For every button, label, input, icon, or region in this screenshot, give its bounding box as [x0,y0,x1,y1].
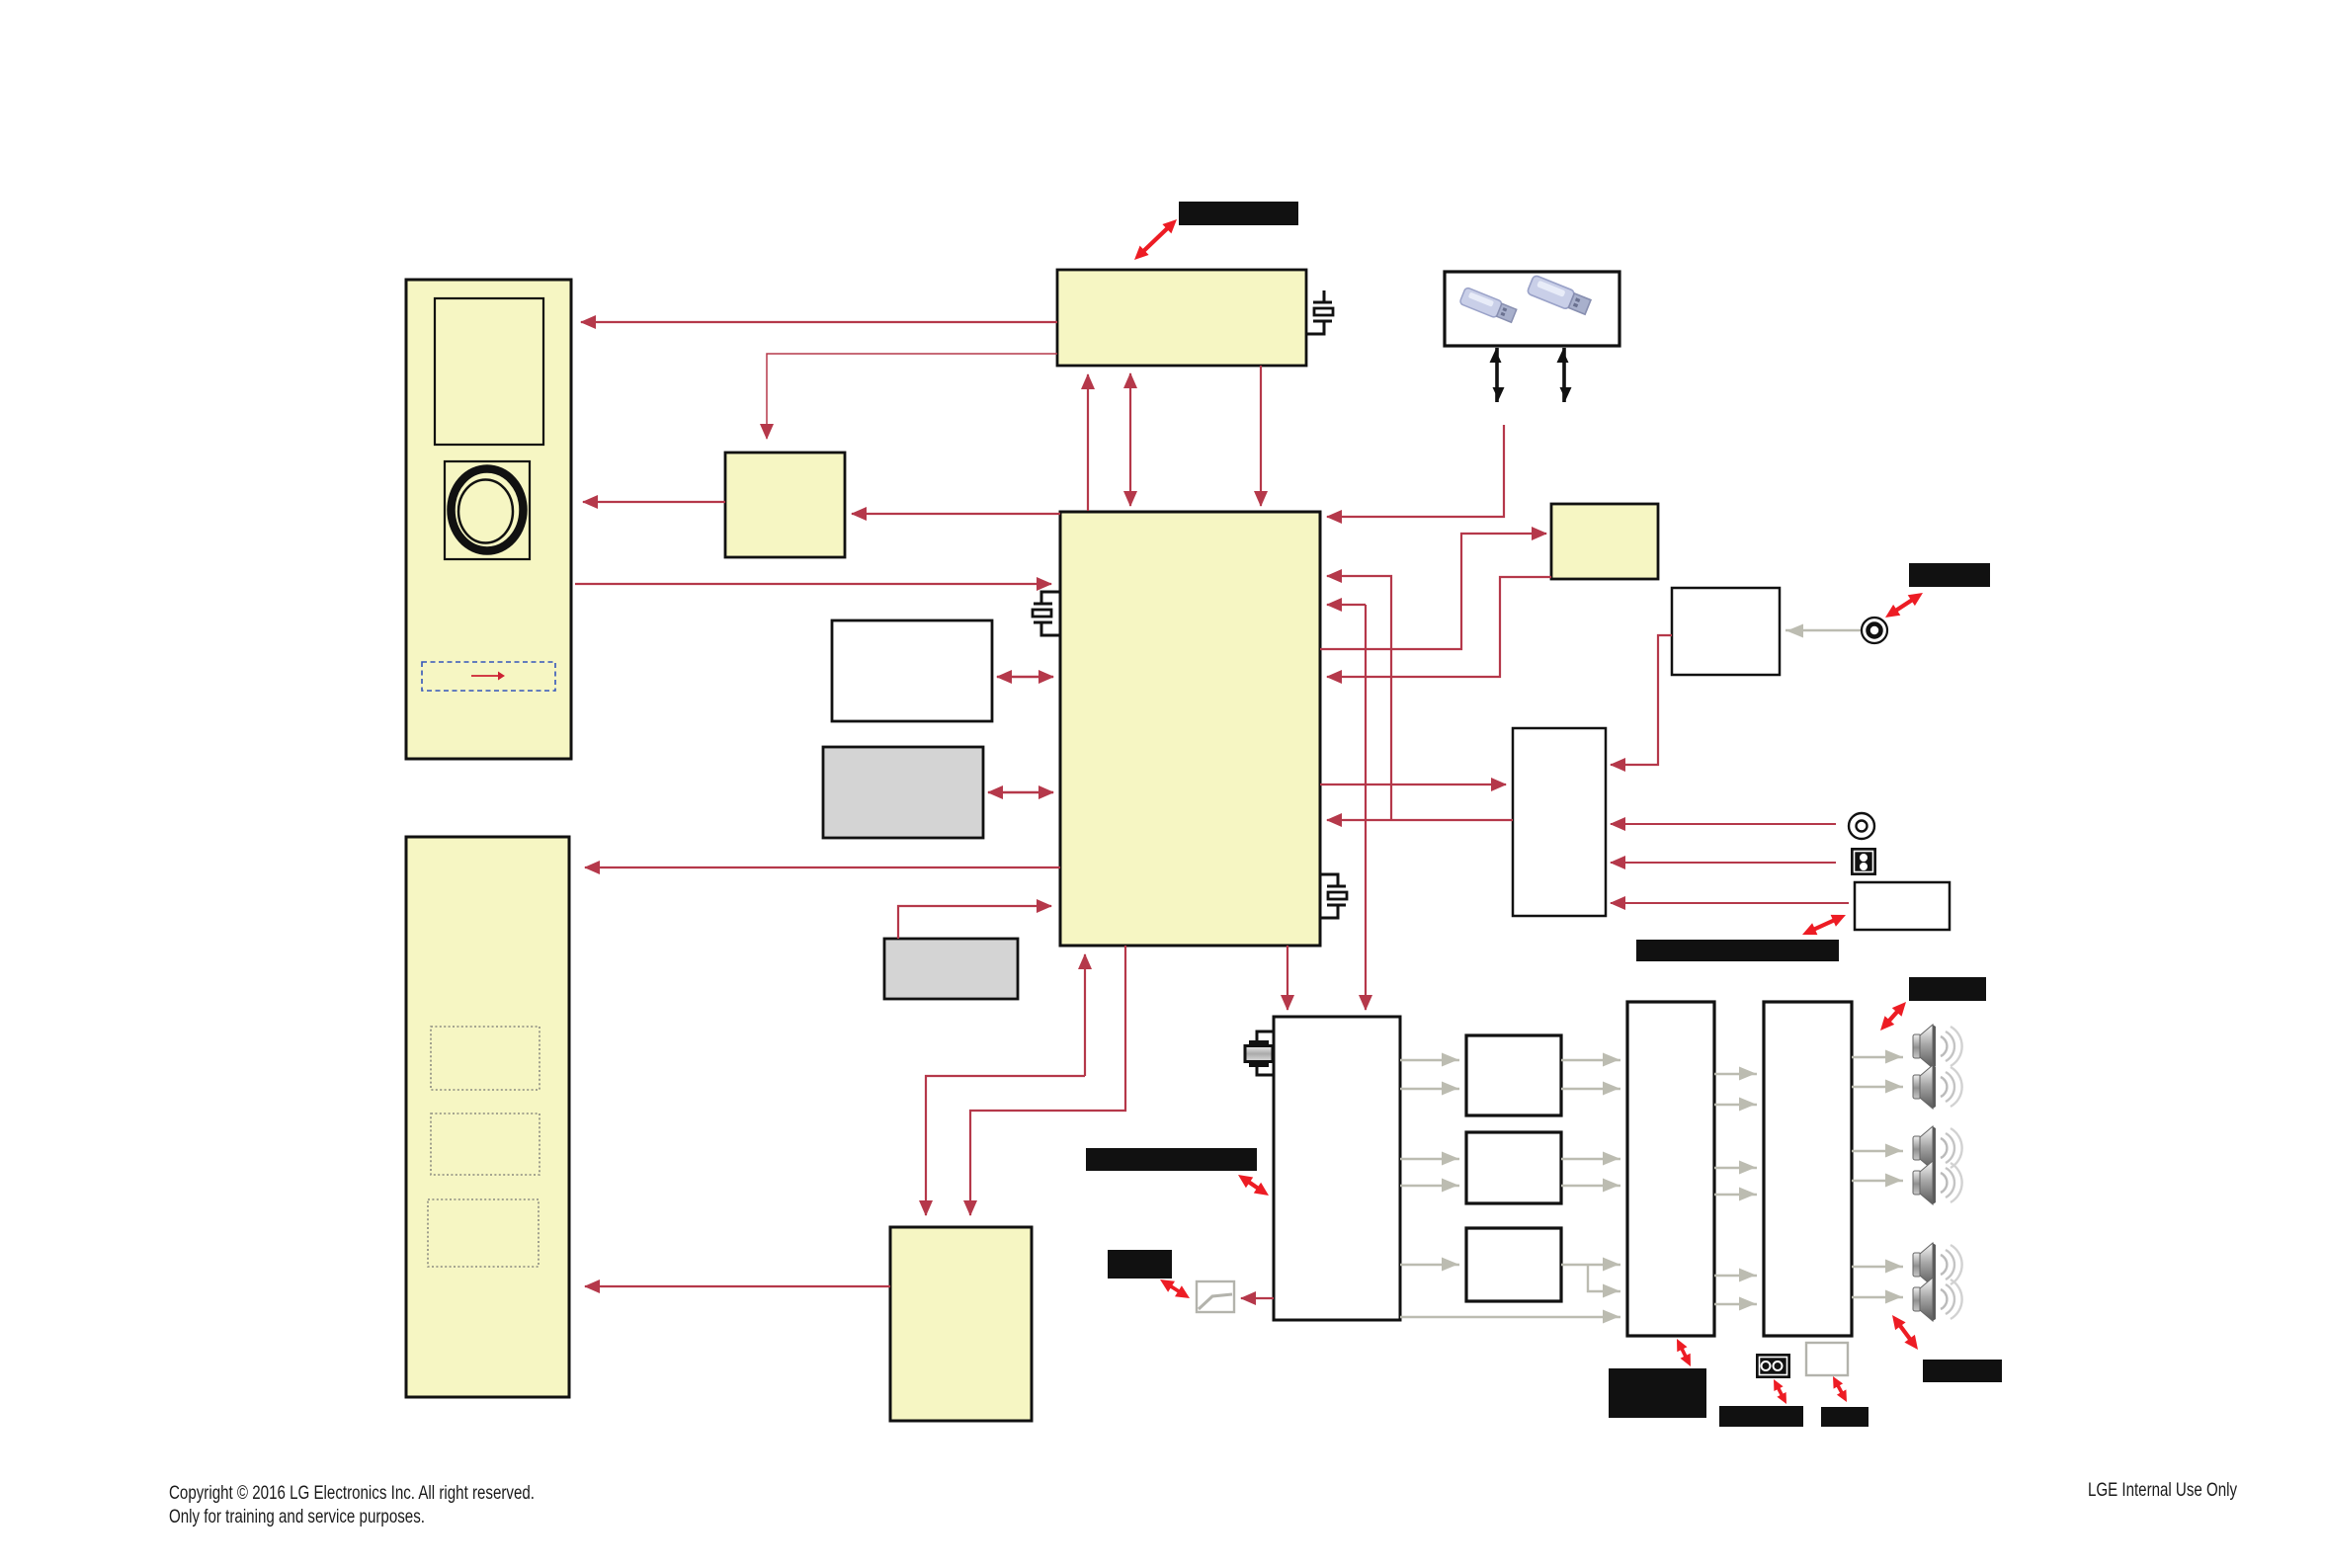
wire: main SoC to bottom-left unit [585,867,1060,868]
power supply box (bottom yellow) [890,1227,1032,1421]
wire: main SoC to PSU (2) [970,946,1125,1215]
black label bar above wifi module [1179,202,1298,225]
wire: main SoC to bt module [1320,534,1546,649]
speaker icon 1 [1913,1025,1962,1068]
speaker icon 4 [1913,1161,1962,1204]
gray wire amp2 to speaker ln4 [1852,1266,1903,1268]
speaker icon 6 [1913,1278,1962,1321]
black double arrow usb1 [1495,348,1499,402]
sub CPU box [725,453,845,557]
gray wire filter1 to amp1 ln0 [1561,1059,1620,1061]
black bar below amp1 [1609,1368,1706,1418]
dotted sub-box 3 [428,1199,539,1267]
wire: bt module to main SoC [1327,577,1551,677]
wire: tower to main SoC [575,583,1051,585]
2pin connector icon (vertical) [1851,848,1876,875]
audio adc box (white, mid-right) [1513,728,1606,916]
black bar ac label [1719,1406,1803,1427]
gray wire dsp to filter2 ln1 [1400,1185,1459,1187]
gray wire filter2 to amp1 ln1 [1561,1185,1620,1187]
wire: pin jack to audio adc [1611,862,1836,864]
bright red link arrow to top label [1134,219,1177,260]
gray wire dsp to filter3 [1400,1264,1459,1266]
red link rf to bar [1885,593,1923,618]
amp stage box 2 [1764,1002,1852,1336]
NAND box (gray) [823,747,983,838]
speaker icon 3 [1913,1126,1962,1170]
black bar front speakers label [1909,977,1986,1001]
gray wire amp2 to speaker ln0 [1852,1056,1903,1058]
wire: main SoC to audio DSP (2) [1287,946,1288,1010]
wire: dram to SoC double [997,676,1053,678]
crystal at main SoC right [1320,874,1347,918]
wire: power to main SoC up-arrow [1084,954,1086,1076]
speaker tower box (top-left unit) [406,280,571,759]
gray wire dsp to filter2 ln0 [1400,1158,1459,1160]
wire: main SoC down to audio DSP [1365,605,1367,1010]
crystal at main SoC left [1033,592,1059,635]
gray wire amp1 to amp2 ln2 [1714,1167,1757,1169]
gray wire filter3 to amp1 a [1561,1264,1620,1266]
wire: audio adc to main SoC [1327,819,1513,821]
main SoC box [1060,512,1320,946]
red link bar23 to dsp [1238,1175,1269,1196]
black bar small label [1108,1250,1172,1279]
gray wire filter3 to amp1 b [1588,1265,1620,1291]
dotted sub-box 1 [431,1027,540,1090]
display panel sub-box inside tower [435,298,543,445]
black bar speaker wiring label [1636,940,1839,961]
gray wire amp2 to speaker ln3 [1852,1180,1903,1182]
wire: bidirectional SoC-wifi [1129,373,1131,506]
wire: PSU to bottom-left unit [585,1285,890,1287]
limiter curve box [1197,1281,1234,1312]
wire: USB to main SoC [1327,425,1504,517]
speaker icon 2 [1913,1065,1962,1109]
gray wire amp2 to speaker ln1 [1852,1086,1903,1088]
black bar near RF connector [1909,563,1990,587]
dotted sub-box 2 [431,1114,540,1175]
gray wire amp1 to amp2 ln1 [1714,1104,1757,1106]
wire: eeprom to main SoC [898,906,1051,939]
black double arrow usb2 [1562,348,1566,402]
red link bar16 to speakers [1880,1002,1906,1031]
gray wire amp1 to amp2 ln4 [1714,1275,1757,1277]
tuner box (white) [1672,588,1780,675]
wire: wifi module to tower display [581,321,1057,323]
red link 2pin to bar22a [1774,1379,1786,1404]
wire: main SoC to sub CPU [852,513,1060,515]
wire: main SoC up to wifi (1) [1087,374,1089,511]
red link graybox to bar22b [1833,1376,1847,1402]
bottom-left unit box [406,837,569,1397]
wire: power link down to PSU [926,1076,1085,1215]
audio DSP box (bottom white) [1274,1017,1400,1320]
USB devices box [1445,272,1619,346]
wire: dsp to limiter box [1241,1297,1274,1299]
gray wire dsp to filter1 ln1 [1400,1088,1459,1090]
svg-text:LGE Internal Use Only: LGE Internal Use Only [2088,1479,2237,1501]
amp stage box 1 [1627,1002,1714,1336]
gray wire dsp to filter1 ln0 [1400,1059,1459,1061]
filter box 3 [1466,1228,1561,1301]
red link amp1 to bar21 [1677,1339,1691,1366]
wire: main SoC to audio DSP stub [1327,604,1366,606]
bt module small box [1551,504,1658,579]
wire: line-in box to audio adc [1611,902,1849,904]
filter box 2 [1466,1132,1561,1203]
wire: main SoC to audio adc [1320,784,1506,785]
wire: junction to main SoC upper [1327,576,1391,820]
DRAM box (white) [832,620,992,721]
gray wire filter1 to amp1 ln1 [1561,1088,1620,1090]
wire: rca jack to audio adc [1611,823,1836,825]
output connector box (gray outline) [1806,1343,1848,1375]
usb drive icon 2 [1527,275,1592,316]
copyright text [169,1482,535,1527]
rca jack icon [1849,813,1874,839]
wire: sub CPU to tower [583,501,725,503]
rf antenna connector icon [1862,618,1887,643]
gray wire filter2 to amp1 ln0 [1561,1158,1620,1160]
red link bar15 to line-in [1802,915,1846,935]
woofer sub-box inside tower [445,461,530,559]
gray wire: rf to tuner [1785,629,1861,631]
dashed insert-region with arrow [422,662,555,691]
wire: wifi down to SoC [1260,366,1262,506]
wire: wifi module to sub CPU [767,354,1057,439]
gray wire amp1 to amp2 ln3 [1714,1194,1757,1196]
gray wire dsp bottom to amp1 [1400,1316,1620,1318]
crystal at audio DSP left [1245,1032,1274,1075]
black bar rear speakers label [1923,1360,2002,1382]
gray wire amp1 to amp2 ln5 [1714,1303,1757,1305]
filter box 1 [1466,1035,1561,1115]
red link speakers to rear bar [1892,1315,1918,1350]
EEPROM box (gray) [884,939,1018,999]
usb drive icon 1 [1459,287,1518,324]
crystal at wifi module [1306,290,1333,334]
wire: nand to SoC double [988,791,1053,793]
black bar out label [1821,1407,1868,1427]
speaker icon 5 [1913,1243,1962,1286]
line-in box (white small) [1855,882,1950,930]
gray wire amp2 to speaker ln2 [1852,1150,1903,1152]
red link bar24 to limiter [1160,1279,1190,1298]
gray wire amp2 to speaker ln5 [1852,1296,1903,1298]
gray wire amp1 to amp2 ln0 [1714,1073,1757,1075]
internal use text [2088,1479,2237,1501]
2pin connector icon (horizontal bottom) [1756,1354,1790,1378]
black bar power label [1086,1148,1257,1171]
wire: tuner to audio adc [1611,635,1672,765]
wifi/bt module box (top) [1057,270,1306,366]
svg-text:Only for training and service: Only for training and service purposes. [169,1506,425,1527]
svg-text:Copyright © 2016 LG Electronic: Copyright © 2016 LG Electronics Inc. All… [169,1482,535,1504]
